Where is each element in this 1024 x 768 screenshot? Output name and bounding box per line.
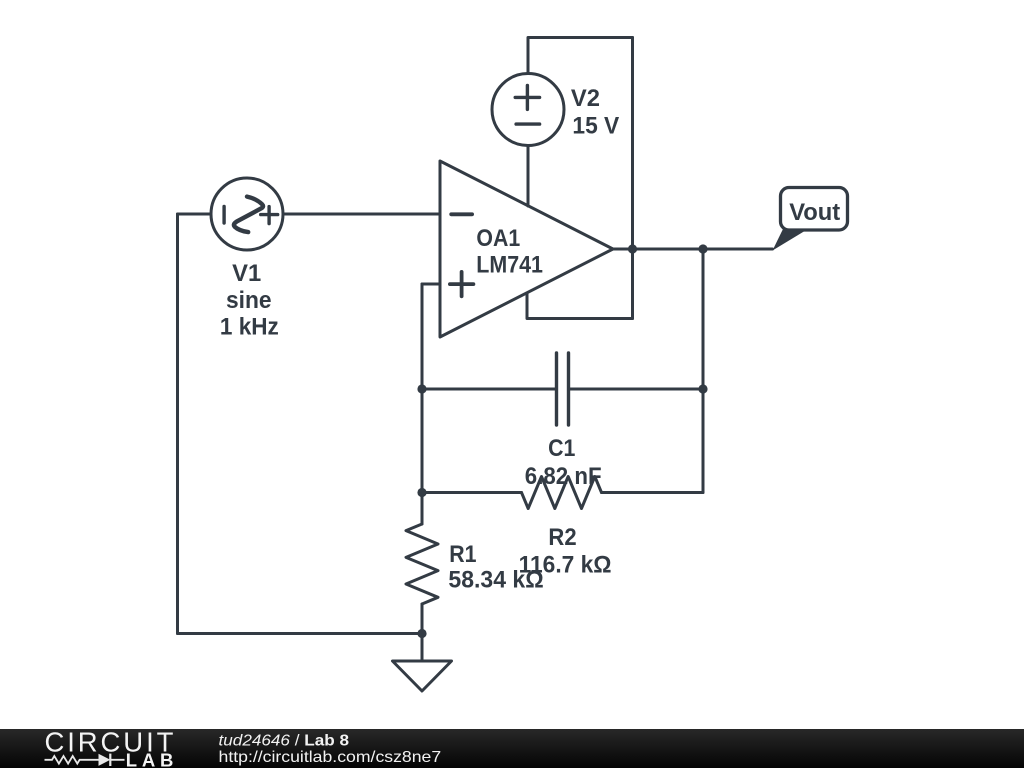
junction node ground: [417, 629, 426, 638]
junction node R2 left / R1 top: [417, 488, 426, 497]
junction node cap left: [417, 384, 426, 393]
junction node at output right: [698, 244, 707, 253]
wire op-amp output: [613, 248, 773, 251]
svg-text:6.82 nF: 6.82 nF: [525, 462, 602, 489]
resistor R1 zigzag: [406, 524, 438, 604]
svg-text:C1: C1: [548, 434, 575, 462]
op-amp U OA1 triangle: [440, 161, 613, 337]
resistor R2 leads: [422, 491, 703, 494]
svg-text:R2: R2: [548, 523, 576, 550]
logo diode triangle: [99, 754, 111, 766]
wire bottom supply row to op-amp V- pin stub: [527, 294, 633, 319]
svg-text:15 V: 15 V: [572, 113, 619, 140]
wire bottom rail horizontal to ground junction: [178, 632, 423, 635]
flag Vout pointer: [773, 229, 809, 251]
resistor R2 zigzag: [522, 477, 602, 509]
svg-text:sine: sine: [226, 287, 272, 314]
ground symbol: [393, 661, 452, 691]
wire capacitor right: [569, 388, 704, 391]
svg-text:tud24646 / Lab 8: tud24646 / Lab 8: [219, 733, 350, 750]
wire V1 right terminal to op-amp inverting input: [283, 213, 440, 216]
wire V1 left terminal to left rail corner: [178, 213, 212, 216]
svg-text:58.34 kΩ: 58.34 kΩ: [448, 566, 543, 594]
wire op-amp non-inverting input stub: [422, 283, 440, 286]
voltage source V2: [492, 74, 564, 146]
wire top from V2 plus terminal up and right to x=632.5: [528, 38, 633, 74]
svg-text:OA1: OA1: [476, 223, 520, 251]
op-amp non-inverting input mark: [450, 272, 474, 296]
junction node at output: [628, 244, 637, 253]
svg-text:LAB: LAB: [126, 750, 174, 768]
wire left rail vertical down: [176, 214, 179, 634]
resistor R1 leads: [421, 493, 424, 634]
footer bar: [0, 729, 1024, 768]
wire right vertical from output junction down to V- supply row: [631, 249, 634, 319]
V1 sine squiggle: [234, 197, 263, 233]
svg-text:1 kHz: 1 kHz: [220, 313, 279, 340]
logo resistor-diode glyph: [45, 754, 125, 766]
svg-text:LM741: LM741: [476, 250, 543, 278]
svg-text:http://circuitlab.com/csz8ne7: http://circuitlab.com/csz8ne7: [219, 749, 442, 766]
svg-text:V1: V1: [232, 260, 261, 287]
wire capacitor left: [422, 388, 557, 391]
V2 plus mark: [515, 85, 539, 109]
voltage source V1 (sine): [211, 178, 283, 250]
svg-text:R1: R1: [449, 540, 476, 568]
wire V2 minus terminal down to op-amp V+ pin on top edge: [527, 146, 530, 207]
wire right vertical from top corner down to output junction: [631, 38, 634, 250]
op-amp inverting input mark: [451, 212, 472, 216]
junction node cap right: [698, 384, 707, 393]
wire right feedback vertical: [702, 249, 705, 493]
wire ground stub: [421, 634, 424, 662]
V2 minus mark: [516, 122, 540, 125]
svg-text:Vout: Vout: [789, 199, 840, 226]
wire feedback vertical from + input down to R junction: [421, 284, 424, 493]
svg-text:V2: V2: [571, 84, 600, 111]
V1 minus terminal bar: [222, 207, 225, 224]
V1 plus terminal mark: [261, 207, 278, 224]
flag Vout body: [781, 188, 848, 231]
capacitor C1 plates: [557, 353, 569, 425]
